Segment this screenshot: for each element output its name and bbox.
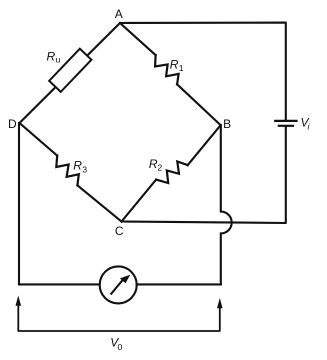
label Ru (47, 49, 61, 64)
battery Vi (275, 121, 296, 126)
svg-text:R: R (170, 58, 179, 72)
resistor Ru (box) (49, 49, 91, 92)
svg-text:C: C (115, 224, 124, 238)
wire C to R2 lead (122, 180, 157, 222)
label V0 (110, 336, 122, 352)
svg-text:R: R (73, 159, 82, 173)
annotation V0 measurement arrows (16, 296, 223, 332)
svg-text:3: 3 (82, 164, 87, 174)
wire R1 to B lead (177, 84, 221, 125)
wire R3 to C lead (77, 185, 121, 221)
svg-text:1: 1 (179, 63, 184, 73)
wire B down with crossover hop (221, 125, 232, 284)
wire bottom row right of meter (137, 283, 221, 285)
wire D-A arm (20, 23, 121, 123)
label R2 (149, 157, 163, 172)
resistor R3 (zigzag) (56, 156, 79, 186)
svg-text:2: 2 (157, 163, 162, 173)
wire D to R3 lead (20, 123, 58, 156)
label R1 (170, 58, 184, 74)
svg-text:D: D (8, 117, 17, 131)
svg-text:0: 0 (118, 342, 123, 352)
svg-text:A: A (115, 7, 123, 21)
resistor R2 (zigzag) (156, 162, 188, 184)
wire battery to bottom-right corner to C (122, 127, 286, 223)
label Vi (301, 115, 311, 131)
svg-text:B: B (223, 117, 231, 131)
svg-text:R: R (47, 49, 56, 63)
galvanometer (100, 266, 137, 303)
wire A to top-right corner down to battery (120, 23, 286, 120)
label R3 (73, 159, 87, 175)
wire R2 to B lead (188, 125, 221, 165)
wire D down left side (18, 123, 20, 284)
svg-text:i: i (308, 121, 311, 131)
svg-text:u: u (56, 55, 61, 65)
wire bottom row left of meter (19, 283, 100, 285)
wire A to R1 lead (120, 23, 156, 55)
resistor R1 (zigzag) (155, 55, 179, 84)
